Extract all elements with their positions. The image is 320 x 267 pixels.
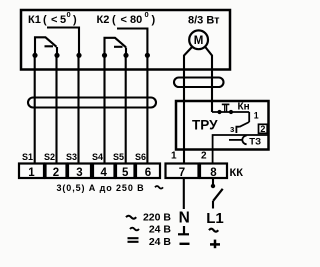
plus symbol [210, 243, 220, 246]
TRU switch pivot 1 [248, 112, 250, 122]
TRU box (thermal control unit) [176, 101, 269, 150]
button Kn contact dot left [217, 110, 221, 114]
svg-text:8: 8 [210, 167, 217, 179]
motor lead right (to TRU button) [205, 47, 212, 112]
supply row ~220V tilde [126, 216, 136, 219]
supply row ~24V tilde [130, 228, 139, 231]
svg-text:5: 5 [60, 14, 66, 26]
motor lead left (to terminal 7) [184, 47, 192, 164]
svg-text:2: 2 [201, 151, 207, 162]
svg-text:2: 2 [260, 124, 265, 134]
svg-text:80: 80 [130, 14, 142, 26]
svg-text:<: < [121, 14, 127, 26]
cell 3 [68, 164, 91, 179]
external switch contact dot [211, 184, 215, 188]
svg-text:з: з [230, 124, 235, 134]
wire S6 [146, 55, 148, 163]
svg-text:3(0,5) А до 250 В: 3(0,5) А до 250 В [57, 183, 145, 193]
wire N (terminal 7 down) [183, 178, 185, 209]
svg-text:М: М [194, 35, 204, 47]
svg-text:220 В: 220 В [143, 212, 171, 224]
cell 8 [200, 164, 227, 179]
thermal element TZ [229, 139, 242, 141]
svg-text:КК: КК [230, 167, 244, 179]
svg-text:7: 7 [179, 167, 185, 179]
svg-text:ТРУ: ТРУ [192, 117, 218, 132]
wire S2 [55, 55, 57, 163]
svg-text:S4: S4 [92, 152, 103, 162]
enclosure box (limit switches and motor) [21, 10, 230, 70]
svg-text:6: 6 [145, 167, 151, 179]
svg-text:8/3 Вт: 8/3 Вт [188, 15, 220, 27]
switch K2 [105, 29, 148, 56]
svg-text:S2: S2 [44, 152, 55, 162]
TRU internal wire to terminal 2 [213, 135, 268, 164]
button Kn wire [212, 111, 249, 113]
TRU contact 3 [236, 127, 239, 133]
svg-text:Кн: Кн [238, 102, 250, 113]
K2 junction dot S5 [123, 53, 128, 58]
svg-text:1: 1 [28, 167, 35, 179]
TRU terminal 2 box [259, 124, 268, 133]
cable sleeve (motor leads) [174, 78, 224, 88]
cable sleeve (switch wires) [28, 98, 156, 108]
svg-text:S6: S6 [135, 152, 146, 162]
minus symbol [180, 243, 190, 245]
svg-text:ТЗ: ТЗ [249, 136, 261, 147]
common terminal symbol [183, 226, 185, 234]
switch K1 [35, 28, 79, 56]
K1 junction dot S1 [32, 53, 37, 58]
terminal block KK cell 1 [19, 164, 44, 179]
svg-text:S1: S1 [22, 152, 33, 162]
svg-text:0: 0 [145, 10, 149, 19]
svg-text:5: 5 [122, 167, 129, 179]
K2 junction dot S4 [102, 53, 107, 58]
TRU switch blade [240, 122, 250, 127]
cell 2 [46, 164, 67, 179]
svg-text:3: 3 [76, 167, 82, 179]
wire S1 [34, 55, 36, 163]
K1 junction dot S2 [54, 53, 59, 58]
svg-text:): ) [152, 14, 156, 26]
cell 7 [166, 164, 199, 179]
wire S5 [125, 55, 127, 163]
svg-text:2: 2 [53, 167, 59, 179]
cell 6 [136, 164, 160, 179]
svg-text:4: 4 [100, 167, 107, 179]
K2 junction dot S6 [145, 53, 150, 58]
svg-text:<: < [51, 14, 57, 26]
wire S3 [77, 55, 79, 163]
svg-text:0: 0 [67, 10, 71, 19]
wire to L1 [212, 201, 214, 209]
svg-text:1: 1 [254, 110, 259, 120]
svg-text:1: 1 [171, 151, 177, 162]
svg-text:L1: L1 [206, 210, 224, 227]
motor M [189, 30, 208, 49]
K1 junction dot S3 [76, 53, 81, 58]
svg-text:24 В: 24 В [149, 224, 172, 236]
wire S4 [103, 55, 105, 163]
svg-text:К2: К2 [97, 14, 110, 26]
svg-text:): ) [73, 14, 77, 26]
24V AC tilde [209, 229, 218, 232]
external switch blade [213, 189, 223, 201]
cell 5 [116, 164, 135, 179]
supply row =24V equals [128, 237, 139, 239]
svg-text:N: N [179, 209, 190, 226]
svg-text:24 В: 24 В [149, 236, 172, 248]
svg-text:S5: S5 [113, 152, 124, 162]
svg-text:К1: К1 [28, 14, 41, 26]
button Kn contact dot right [229, 110, 233, 114]
button Kn actuator [222, 103, 230, 105]
wire to switch (terminal 8 down) [212, 178, 214, 185]
svg-text:S3: S3 [66, 152, 77, 162]
cell 4 [93, 164, 115, 179]
svg-text:(: ( [43, 14, 47, 26]
svg-text:(: ( [112, 14, 116, 26]
